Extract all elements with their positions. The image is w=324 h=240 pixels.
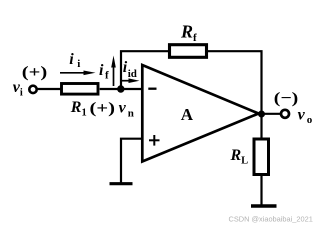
svg-text:vi: vi <box>13 79 23 99</box>
svg-text:iid: iid <box>123 59 137 80</box>
svg-text:R1: R1 <box>70 99 87 119</box>
terminal v_o <box>281 110 289 118</box>
current arrow i_id <box>122 78 140 83</box>
svg-text:Rf: Rf <box>180 22 197 45</box>
wire output node to RL <box>260 114 262 139</box>
svg-text:(−): (−) <box>274 90 299 107</box>
wire output node to terminal <box>262 113 282 115</box>
svg-text:RL: RL <box>230 147 249 167</box>
svg-text:vo: vo <box>298 107 313 127</box>
svg-text:A: A <box>181 105 194 124</box>
svg-text:vn: vn <box>119 100 134 120</box>
wire vi to R1 <box>37 88 61 90</box>
resistor R1 <box>62 84 99 95</box>
current arrow i_i <box>60 71 96 76</box>
ground left <box>110 182 133 185</box>
current arrow i_f <box>111 56 116 87</box>
wire noninverting input to ground <box>121 139 142 183</box>
op-amp inverting input marker <box>148 88 156 90</box>
output node junction dot <box>258 111 265 118</box>
op-amp A <box>142 65 258 162</box>
resistor RL <box>254 139 269 175</box>
resistor Rf <box>170 45 207 58</box>
svg-text:(+): (+) <box>22 64 48 81</box>
wire RL to ground <box>260 174 262 205</box>
op-amp noninverting input marker <box>149 135 160 146</box>
svg-text:CSDN @xiaobaibai_2021: CSDN @xiaobaibai_2021 <box>229 215 313 224</box>
ground right <box>251 204 277 207</box>
wire Rf to output node <box>208 51 262 114</box>
node n junction dot <box>117 85 124 92</box>
terminal v_i <box>29 86 36 93</box>
wire R1 to inverting input <box>100 88 142 90</box>
svg-text:ii: ii <box>69 51 80 70</box>
svg-text:(+): (+) <box>90 100 116 117</box>
wire feedback node n up to Rf <box>121 51 168 89</box>
svg-text:if: if <box>99 62 109 81</box>
